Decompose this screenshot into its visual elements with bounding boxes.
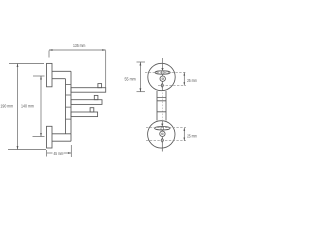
bottom axis line above xyxy=(161,121,163,126)
connecting stem between rosettes xyxy=(157,91,166,121)
top connector xyxy=(162,74,164,76)
top hook arm front (ellipse) xyxy=(155,71,170,74)
post collar joints xyxy=(66,85,72,120)
hook 2 tip xyxy=(94,95,98,99)
dimension 135 mm top: line + extensions xyxy=(49,50,106,87)
post-to-bottom-arm right edge xyxy=(70,134,72,141)
hook 3 (bottom swivel arm) xyxy=(71,112,98,117)
top rosette circle xyxy=(148,63,175,90)
svg-text:140 mm: 140 mm xyxy=(21,104,34,109)
stem centerline (dotted) xyxy=(161,93,163,121)
bottom wall plate (side view) xyxy=(47,126,53,148)
hook 2 (middle swivel arm) xyxy=(71,100,102,105)
hook 3 tip xyxy=(90,108,94,112)
svg-text:25 mm: 25 mm xyxy=(187,78,197,83)
dimension 135 mm arrows xyxy=(49,49,106,51)
top screw xyxy=(160,76,165,81)
bottom ellipse center detail xyxy=(161,127,164,130)
bottom 25 mm bracket xyxy=(183,128,185,141)
svg-text:25 mm: 25 mm xyxy=(187,134,197,139)
top diamond tail xyxy=(161,88,163,91)
top axis line above xyxy=(162,58,164,70)
bottom bracket arm xyxy=(52,134,71,141)
dimension 140 mm: vertical line + extension ticks xyxy=(33,76,45,137)
svg-text:45 mm: 45 mm xyxy=(54,151,64,156)
bottom screw xyxy=(160,131,165,136)
top 25 mm dimension dashes xyxy=(145,72,186,85)
bottom diamond tail + centerline below xyxy=(161,143,163,152)
stem joints xyxy=(157,97,166,111)
top wall plate (side view) xyxy=(47,63,53,86)
svg-text:55 mm: 55 mm xyxy=(125,77,136,82)
dimension 55 mm: vertical line + ticks xyxy=(137,62,146,92)
pivot post xyxy=(66,71,72,134)
bottom screw slot xyxy=(162,133,163,134)
hook 1 (top swivel arm) xyxy=(71,88,106,93)
dimension 190 mm: vertical line + extension lines xyxy=(8,64,46,150)
bottom hook arm front (ellipse) xyxy=(155,127,170,130)
top diamond marker xyxy=(161,83,163,87)
top ellipse center detail xyxy=(161,71,164,74)
bottom link to diamond xyxy=(161,137,163,139)
dimension 45 mm bottom: line + extension xyxy=(47,145,72,157)
bottom diamond marker xyxy=(161,138,163,142)
svg-text:135 mm: 135 mm xyxy=(73,43,86,48)
top link to diamond xyxy=(161,82,163,84)
hook 1 tip xyxy=(98,84,102,88)
bottom connector xyxy=(161,130,163,131)
bottom 25 mm dimension dashes xyxy=(146,128,186,141)
top screw slot xyxy=(162,78,163,79)
svg-text:190 mm: 190 mm xyxy=(0,104,13,109)
bottom rosette circle xyxy=(148,121,175,148)
top 25 mm bracket xyxy=(183,72,185,85)
top bracket arm xyxy=(52,71,71,78)
